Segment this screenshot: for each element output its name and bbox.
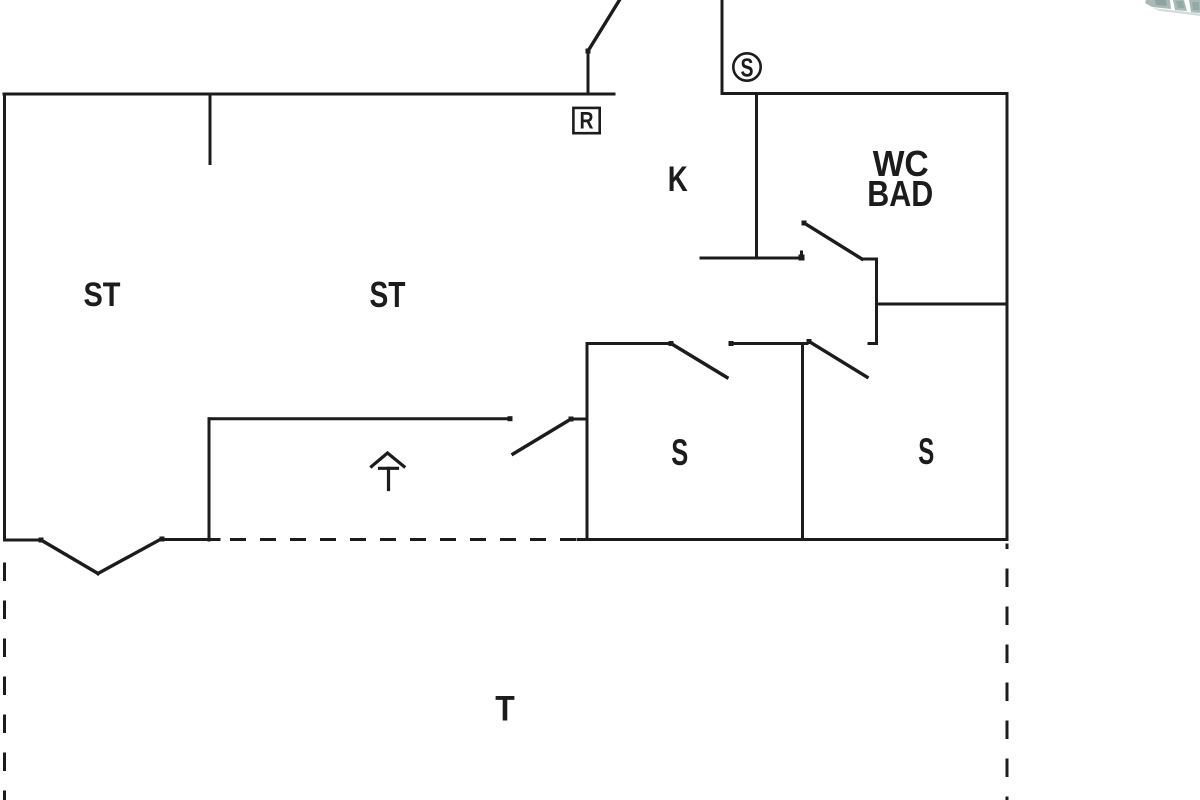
kitchen counter end tick [800,252,803,258]
dashed boundary left vertical [3,563,6,800]
symbol stair arrow [372,453,405,490]
door leaf S1 [671,344,727,378]
wall top-left horizontal [4,93,614,96]
svg-text:ST: ST [84,276,121,314]
wall hall vertical [208,419,211,540]
door jamb WC horizontal [862,258,877,261]
door leaf WC [804,223,862,259]
wall kitchen vertical [755,94,758,258]
wall bottom of S rooms [578,538,1007,541]
wall S divider vertical [801,344,804,540]
hinge dots [39,49,812,543]
wall S mid top horizontal [731,342,807,345]
wall hall horizontal [209,417,510,420]
svg-text:T: T [495,690,515,729]
svg-text:ST: ST [370,274,406,315]
wall WC-S vertical [875,259,878,344]
door leaf hall [513,419,571,454]
door jamb entrance [587,51,590,94]
svg-text:BAD: BAD [867,173,933,214]
wall notch V right leg [98,539,162,574]
watermark logo fragment top-right [1145,0,1200,16]
door leaf S2 [809,342,867,378]
door leaf entrance [588,0,620,51]
wall bottom-left stub [5,539,42,542]
wall notch V left leg [41,540,98,574]
wall WC bottom horizontal [877,303,1008,306]
wall S1 left vertical [586,344,589,540]
door jamb hall tick [571,418,585,421]
wall S1 top horizontal [587,342,671,345]
wall right vertical [1006,94,1009,540]
wall left vertical [3,94,6,540]
kitchen counter line [701,257,802,260]
wall top-right horizontal [722,92,1007,95]
dashed boundary right vertical [1006,544,1009,800]
wall WC-S foot tick [869,342,877,345]
svg-text:R: R [580,108,594,135]
wall partition stub ST [209,94,212,164]
symbol S circle [733,53,760,83]
svg-text:S: S [741,53,754,83]
dashed boundary horizontal terrace [230,538,576,541]
wall bottom segment to hall [162,538,219,541]
symbol R box [573,108,599,135]
wall entrance right vertical [721,0,724,94]
svg-text:S: S [918,431,934,472]
svg-text:S: S [671,432,688,473]
svg-text:K: K [668,160,688,199]
